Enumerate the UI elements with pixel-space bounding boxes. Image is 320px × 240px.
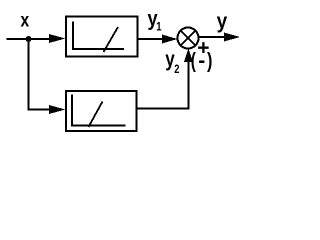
wire upper block output to summing junction <box>139 38 163 40</box>
arrowhead into lower block <box>49 105 66 114</box>
svg-text:2: 2 <box>174 62 179 76</box>
arrowhead up into summing junction bottom <box>184 49 193 63</box>
svg-text:x: x <box>21 11 30 32</box>
wire vertical from junction dot down <box>28 39 30 111</box>
axis vertical inside lower block <box>71 95 73 126</box>
node junction dot on input wire <box>26 36 32 42</box>
svg-text:1: 1 <box>156 20 162 34</box>
characteristic diagonal inside lower block <box>89 102 103 128</box>
characteristic diagonal inside upper block <box>104 27 119 52</box>
arrowhead into upper block <box>49 34 66 43</box>
wire input x horizontal <box>7 38 51 40</box>
summing junction X cross line 1 <box>181 31 195 45</box>
block G2 (lower linear element) <box>66 91 137 131</box>
wire vertical up to summing junction <box>188 61 190 110</box>
wire output from summing junction <box>199 36 225 38</box>
axis horizontal inside upper block <box>72 48 124 50</box>
wire bottom horizontal to lower block <box>28 109 52 111</box>
wire lower block output horizontal <box>138 108 190 110</box>
svg-text:y: y <box>217 10 228 33</box>
block G1 (upper linear element) <box>66 17 138 57</box>
axis vertical inside upper block <box>72 22 74 51</box>
arrowhead output y <box>224 33 240 42</box>
axis horizontal inside lower block <box>71 125 126 127</box>
summing junction circle <box>178 28 199 49</box>
svg-text:): ) <box>207 49 212 72</box>
arrowhead into summing junction left <box>162 35 178 44</box>
svg-text:-: - <box>198 49 205 72</box>
summing junction X cross line 2 <box>181 31 195 45</box>
